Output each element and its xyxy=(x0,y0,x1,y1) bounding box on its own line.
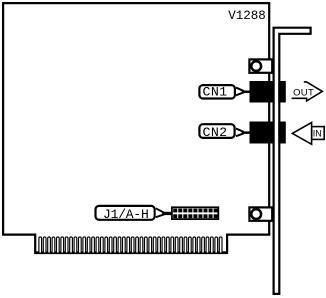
svg-text:J1/A-H: J1/A-H xyxy=(103,207,149,222)
upper bracket tab xyxy=(249,59,272,72)
svg-text:OUT: OUT xyxy=(293,88,314,99)
svg-text:V1288: V1288 xyxy=(228,9,266,23)
wire CN1 xyxy=(242,91,250,94)
edge connector fingers (comb) xyxy=(39,237,222,253)
IN arrow tail xyxy=(312,127,325,140)
upper screw hole xyxy=(251,61,261,71)
svg-text:IN: IN xyxy=(313,128,322,138)
J1 pointer tip xyxy=(156,208,164,217)
label J1/A-H box xyxy=(96,206,155,220)
CN1 pointer tip xyxy=(236,88,243,96)
jumper block pins xyxy=(173,209,217,219)
connector CN2 barrel xyxy=(278,122,285,144)
IN arrow head xyxy=(292,123,311,145)
label CN2 box xyxy=(199,124,234,138)
CN2 pointer tip xyxy=(236,129,243,137)
connector CN1 barrel xyxy=(278,81,285,103)
svg-text:CN1: CN1 xyxy=(203,85,228,100)
connector CN1 body xyxy=(250,81,275,103)
connector CN2 body xyxy=(250,122,275,144)
card outline (PCB) xyxy=(3,3,269,235)
wire CN2 xyxy=(242,131,250,134)
jumper block J1 outline xyxy=(172,207,218,219)
svg-text:CN2: CN2 xyxy=(203,125,228,140)
OUT arrow xyxy=(292,82,323,101)
lower bracket tab xyxy=(249,207,272,220)
lower screw hole xyxy=(251,209,261,219)
edge connector baseline xyxy=(34,251,228,254)
label CN1 box xyxy=(199,85,235,98)
bracket (metal mounting bracket with top flange) xyxy=(274,28,311,294)
card bottom-left edge and step xyxy=(2,235,35,252)
card bottom-right edge and step xyxy=(227,235,270,252)
wire J1 xyxy=(162,212,171,215)
